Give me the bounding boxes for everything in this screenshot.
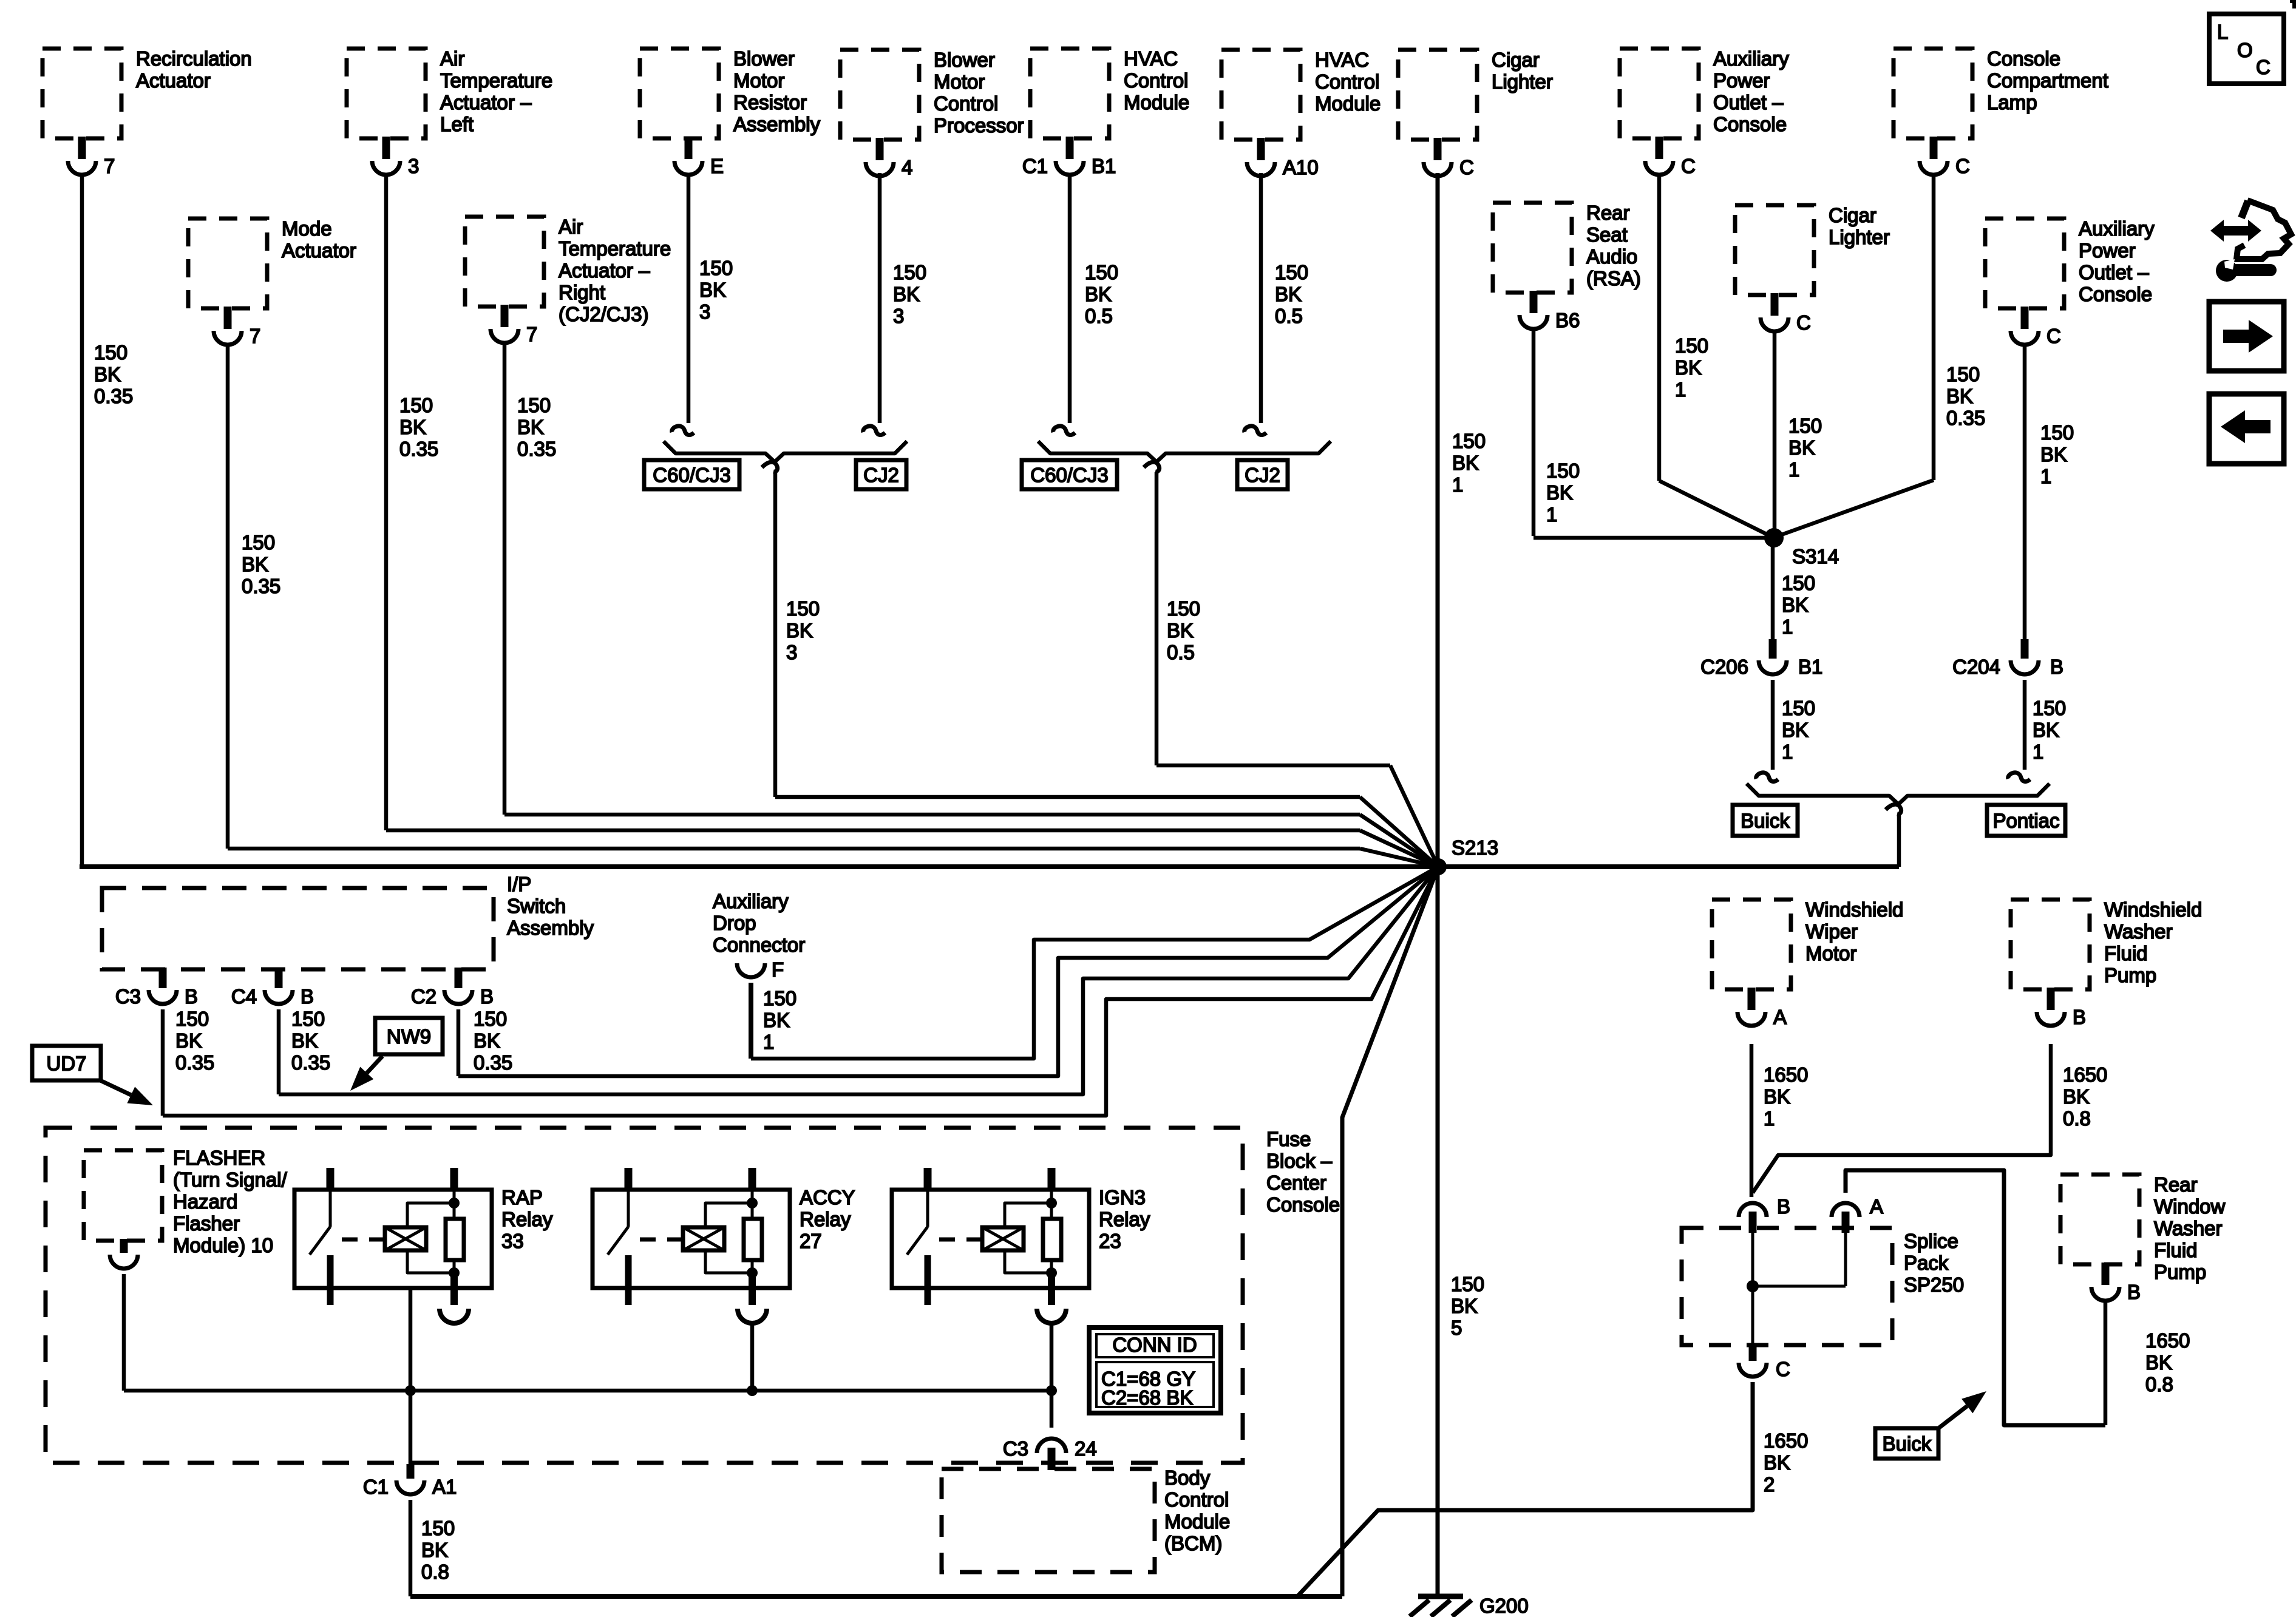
svg-text:Fluid: Fluid (2104, 942, 2148, 964)
svg-text:1: 1 (1546, 503, 1557, 526)
svg-text:Compartment: Compartment (1987, 69, 2108, 92)
svg-text:0.35: 0.35 (291, 1051, 330, 1074)
svg-text:2: 2 (1764, 1473, 1775, 1496)
svg-text:Lamp: Lamp (1987, 91, 2037, 114)
svg-text:Control: Control (934, 92, 998, 115)
hook blower control wire end (863, 426, 885, 435)
svg-text:E: E (710, 155, 724, 177)
svg-text:0.35: 0.35 (1946, 407, 1985, 429)
svg-text:S213: S213 (1452, 836, 1498, 859)
svg-text:150: 150 (242, 531, 275, 554)
wire C1 A1 to bottom net (409, 1500, 413, 1596)
wire label 150 BK 0.35 (C3) (175, 1008, 214, 1074)
svg-text:Air: Air (559, 215, 583, 238)
svg-text:Auxiliary: Auxiliary (2079, 217, 2155, 240)
wire label 150 BK 3 (blower resistor) (699, 257, 733, 323)
svg-text:BK: BK (699, 279, 726, 301)
svg-text:Pump: Pump (2104, 964, 2156, 986)
HVAC control module A10 (1221, 49, 1381, 178)
svg-text:ACCY: ACCY (800, 1186, 855, 1209)
wire ACCY relay cup to collector (750, 1323, 755, 1391)
svg-text:1: 1 (1764, 1107, 1775, 1130)
svg-text:Blower: Blower (733, 47, 795, 70)
blower motor resistor assembly (640, 47, 821, 177)
svg-text:B: B (2127, 1281, 2141, 1303)
svg-text:33: 33 (501, 1230, 524, 1252)
wire aux drop connector down (749, 983, 753, 1059)
rear window washer fluid pump (2060, 1173, 2226, 1303)
variant label Buick (splice) (1875, 1428, 1938, 1459)
svg-text:150: 150 (94, 341, 127, 364)
wire label 1650 BK 0.8 (washer pump) (2063, 1063, 2107, 1130)
svg-text:Buick: Buick (1741, 810, 1790, 832)
wire label 150 BK 1 (S314 to C206) (1782, 572, 1815, 638)
svg-text:Actuator: Actuator (282, 239, 356, 262)
svg-text:BK: BK (1546, 481, 1573, 504)
wire label 1650 BK 2 (splice pack C) (1764, 1429, 1808, 1496)
svg-text:BK: BK (517, 416, 544, 438)
icon arrow right box (2209, 302, 2284, 371)
svg-text:B: B (480, 985, 494, 1008)
wire cigar lighter console to S314 (1773, 332, 1777, 537)
wire aux power outlet to S314 (1659, 173, 1774, 538)
svg-text:Temperature: Temperature (559, 237, 671, 260)
wire label 150 BK 1 (cigar lighter) (1452, 430, 1486, 496)
svg-text:BK: BK (1764, 1085, 1790, 1108)
connector C204 B (1952, 639, 2063, 678)
svg-text:S314: S314 (1792, 545, 1839, 568)
svg-text:Fuse: Fuse (1266, 1128, 1311, 1150)
icon LOC box (2209, 14, 2284, 84)
wire label 150 BK 1 (aux power outlet) (1675, 334, 1708, 401)
CONN ID table (1089, 1327, 1221, 1413)
svg-text:Windshield: Windshield (1805, 898, 1903, 921)
ground symbol G200 (1410, 1595, 1529, 1617)
svg-text:Cigar: Cigar (1829, 204, 1877, 226)
svg-text:I/P: I/P (507, 873, 531, 895)
svg-text:Relay: Relay (800, 1208, 851, 1230)
wire S213 to C4 (279, 867, 1438, 1094)
relay ground collector wire (124, 1389, 1052, 1393)
wire label 150 BK 3 (blower control) (893, 261, 926, 327)
body control module box (942, 1469, 1155, 1572)
svg-text:BK: BK (786, 619, 813, 642)
svg-text:C2=68 BK: C2=68 BK (1101, 1386, 1193, 1409)
svg-text:Motor: Motor (1805, 942, 1856, 964)
wire RAP relay to collector (409, 1288, 413, 1391)
splice pack box (1682, 1228, 1892, 1345)
svg-text:BK: BK (291, 1029, 318, 1052)
svg-text:Outlet –: Outlet – (2079, 261, 2149, 283)
svg-text:C1: C1 (363, 1476, 389, 1498)
cigar lighter (console) (1735, 204, 1890, 334)
svg-text:C3: C3 (115, 985, 141, 1008)
svg-text:Mode: Mode (282, 217, 332, 240)
label auxiliary drop connector (713, 890, 805, 956)
wire below C204 (2023, 680, 2027, 770)
svg-text:B1: B1 (1092, 155, 1116, 177)
svg-text:1: 1 (2033, 741, 2043, 763)
inline connector label CJ2 (856, 460, 906, 489)
wire label 150 BK 0.35 (console lamp) (1946, 363, 1985, 429)
svg-text:BK: BK (94, 363, 121, 385)
svg-text:Power: Power (1713, 69, 1770, 92)
svg-text:Block –: Block – (1266, 1150, 1333, 1172)
variant label Pontiac (1987, 805, 2065, 836)
svg-text:Flasher: Flasher (173, 1212, 240, 1235)
svg-text:A1: A1 (432, 1476, 457, 1498)
flasher box (84, 1150, 162, 1241)
svg-text:Right: Right (559, 281, 605, 303)
svg-text:3: 3 (408, 155, 419, 177)
wire hvac C1 down (1068, 173, 1072, 423)
wire blower resistor down (687, 173, 691, 423)
svg-text:7: 7 (250, 325, 260, 347)
svg-text:150: 150 (1946, 363, 1980, 385)
wire IGN3 relay cup to C3 24 (1050, 1323, 1054, 1428)
svg-text:C60/CJ3: C60/CJ3 (1030, 464, 1108, 486)
svg-text:A: A (1773, 1006, 1787, 1028)
svg-text:B: B (185, 985, 198, 1008)
inline connector label C60/CJ3 (644, 460, 739, 489)
wire label 150 BK 3 (merged blower) (786, 597, 820, 663)
svg-text:Relay: Relay (1099, 1208, 1150, 1230)
svg-text:0.35: 0.35 (399, 438, 438, 460)
svg-text:BK: BK (1782, 594, 1809, 616)
air temperature actuator - right (465, 215, 671, 345)
corner mark top right (2290, 0, 2296, 8)
icon arrow left box (2209, 394, 2284, 464)
svg-text:Auxiliary: Auxiliary (713, 890, 789, 912)
connector C1 A1 (363, 1464, 457, 1498)
callout box NW9 (375, 1018, 443, 1054)
blower motor control processor (840, 49, 1024, 178)
wire air temp left to S213 (386, 173, 1438, 867)
svg-text:Console: Console (1266, 1193, 1340, 1216)
svg-text:BK: BK (1946, 385, 1973, 407)
svg-text:0.35: 0.35 (517, 438, 556, 460)
svg-text:B: B (301, 985, 314, 1008)
svg-text:G200: G200 (1479, 1595, 1529, 1617)
svg-text:Body: Body (1164, 1466, 1211, 1489)
windshield washer fluid pump (2011, 898, 2202, 1028)
svg-text:CJ2: CJ2 (863, 464, 899, 486)
svg-text:1650: 1650 (2063, 1063, 2107, 1086)
svg-text:150: 150 (1675, 334, 1708, 357)
svg-text:Windshield: Windshield (2104, 898, 2202, 921)
wire S213 to C2 (458, 867, 1438, 1076)
svg-text:BK: BK (2040, 443, 2067, 466)
wire rear seat audio to S314 (1533, 328, 1774, 538)
svg-text:B: B (2073, 1006, 2086, 1028)
connector C3 24 (1003, 1437, 1097, 1470)
svg-text:B: B (2050, 656, 2063, 678)
svg-text:BK: BK (2033, 719, 2059, 741)
svg-text:BK: BK (474, 1029, 500, 1052)
svg-text:150: 150 (1451, 1273, 1484, 1295)
svg-text:B6: B6 (1555, 309, 1580, 331)
ACCY relay 27 (593, 1168, 855, 1323)
svg-text:BK: BK (1452, 452, 1479, 474)
icon hand with wrench (2210, 200, 2291, 282)
svg-text:BK: BK (1275, 283, 1302, 305)
svg-text:150: 150 (421, 1517, 455, 1539)
auxiliary power outlet - console 2 (1985, 217, 2155, 347)
svg-text:150: 150 (893, 261, 926, 283)
mode actuator (188, 217, 356, 347)
svg-text:C1: C1 (1022, 155, 1048, 177)
svg-text:B: B (1777, 1195, 1790, 1218)
wire merged blower to S213 (775, 472, 1438, 867)
svg-text:Outlet –: Outlet – (1713, 91, 1784, 114)
svg-text:NW9: NW9 (387, 1025, 431, 1048)
svg-text:0.5: 0.5 (1085, 305, 1113, 327)
junction collector buick/pontiac (1747, 784, 2050, 804)
svg-text:Assembly: Assembly (507, 917, 594, 939)
svg-text:Relay: Relay (501, 1208, 553, 1230)
wire C4 down (277, 1009, 281, 1094)
svg-text:1: 1 (1788, 458, 1799, 481)
label splice pack SP250 (1904, 1230, 1964, 1296)
svg-text:C: C (1955, 155, 1970, 177)
node collector RAP (405, 1385, 416, 1396)
callout box UD7 (32, 1046, 101, 1080)
wire buick/pontiac junction to main line (1897, 815, 1901, 867)
svg-text:BK: BK (1085, 283, 1112, 305)
wire S314 to C206 (1771, 541, 1775, 641)
svg-text:BK: BK (1167, 619, 1194, 642)
svg-text:Audio: Audio (1586, 245, 1637, 268)
svg-text:0.35: 0.35 (94, 385, 133, 407)
hook hvac A10 wire end (1245, 426, 1266, 435)
hook below C206 (1756, 773, 1778, 782)
svg-text:Resistor: Resistor (733, 91, 807, 114)
svg-text:A: A (1870, 1195, 1883, 1218)
junction collector blower group (664, 441, 907, 462)
svg-text:Module: Module (1124, 91, 1189, 114)
svg-text:Lighter: Lighter (1492, 70, 1553, 93)
variant label Buick (1733, 805, 1798, 836)
svg-text:Module: Module (1315, 92, 1381, 115)
svg-text:Motor: Motor (934, 70, 985, 93)
svg-text:Pontiac: Pontiac (1992, 810, 2059, 832)
svg-text:(BCM): (BCM) (1164, 1532, 1222, 1554)
air temperature actuator - left (347, 47, 552, 177)
svg-text:150: 150 (786, 597, 820, 620)
svg-text:Left: Left (440, 113, 474, 135)
svg-text:CJ2: CJ2 (1245, 464, 1280, 486)
svg-text:150: 150 (291, 1008, 325, 1030)
svg-text:150: 150 (1782, 697, 1815, 719)
wire C2 down (457, 1009, 461, 1076)
svg-text:Air: Air (440, 47, 464, 70)
svg-text:0.8: 0.8 (2063, 1107, 2091, 1130)
crowfoot buick/pontiac (1886, 804, 1901, 814)
svg-text:Lighter: Lighter (1829, 226, 1890, 248)
crowfoot blower group (762, 462, 778, 472)
svg-text:Seat: Seat (1586, 223, 1628, 246)
wire air temp right to S213 (504, 341, 1438, 867)
svg-text:BK: BK (1782, 719, 1809, 741)
svg-text:C: C (2256, 56, 2271, 78)
auxiliary power outlet - console (1620, 47, 1789, 177)
svg-text:0.5: 0.5 (1275, 305, 1303, 327)
svg-text:BK: BK (2145, 1351, 2172, 1374)
svg-text:Hazard: Hazard (173, 1190, 237, 1213)
svg-text:Control: Control (1164, 1488, 1229, 1511)
svg-text:Washer: Washer (2104, 920, 2172, 943)
hook below C204 (2008, 773, 2030, 782)
svg-text:Cigar: Cigar (1492, 49, 1540, 71)
wire console lamp to S314 (1776, 173, 1934, 537)
svg-text:Actuator: Actuator (136, 69, 211, 92)
svg-text:Motor: Motor (733, 69, 784, 92)
svg-text:150: 150 (175, 1008, 209, 1030)
svg-text:Center: Center (1266, 1171, 1326, 1194)
svg-text:F: F (772, 958, 784, 981)
svg-text:Washer: Washer (2154, 1217, 2222, 1239)
wire splice pack C to bottom net (1297, 1382, 1753, 1596)
svg-text:BK: BK (763, 1009, 790, 1031)
svg-text:5: 5 (1451, 1317, 1462, 1339)
svg-text:BK: BK (399, 416, 426, 438)
wire splice pack A to rear washer net (1846, 1170, 2105, 1425)
rear seat audio (RSA) (1493, 202, 1641, 331)
wire label 150 BK 0.8 (C1 A1) (421, 1517, 455, 1583)
wire mode actuator to S213 (228, 343, 1438, 867)
svg-text:Power: Power (2079, 239, 2136, 262)
svg-text:7: 7 (526, 323, 537, 345)
wire cigar lighter through S213 to G200 (1436, 173, 1440, 1596)
svg-text:SP250: SP250 (1904, 1273, 1964, 1296)
svg-text:Assembly: Assembly (733, 113, 821, 135)
wire label 150 BK 0.35 (C2) (474, 1008, 512, 1074)
wire label 150 BK 0.35 (C4) (291, 1008, 330, 1074)
svg-text:3: 3 (699, 300, 710, 323)
recirculation actuator (42, 47, 252, 177)
svg-text:O: O (2237, 39, 2253, 61)
connector C3 B (115, 968, 198, 1008)
svg-text:Actuator –: Actuator – (559, 259, 650, 282)
svg-text:Wiper: Wiper (1805, 920, 1858, 943)
svg-text:HVAC: HVAC (1315, 49, 1369, 71)
wire label 150 BK 0.5 (hvac C1) (1085, 261, 1118, 327)
wire S213 to aux drop connector (751, 867, 1438, 1059)
svg-text:150: 150 (2033, 697, 2066, 719)
svg-text:Pump: Pump (2154, 1261, 2206, 1283)
svg-text:C204: C204 (1952, 656, 2000, 678)
wire below C206 (1771, 680, 1775, 770)
svg-text:150: 150 (399, 394, 433, 416)
node collector ACCY (747, 1385, 758, 1396)
svg-text:Drop: Drop (713, 912, 756, 934)
svg-text:IGN3: IGN3 (1099, 1186, 1146, 1209)
wire aux power outlet 2 down (2023, 345, 2027, 641)
svg-text:HVAC: HVAC (1124, 47, 1178, 70)
svg-text:0.8: 0.8 (421, 1561, 449, 1583)
svg-text:150: 150 (1788, 415, 1822, 437)
svg-text:Auxiliary: Auxiliary (1713, 47, 1789, 70)
svg-text:Pack: Pack (1904, 1252, 1949, 1274)
svg-text:Console: Console (2079, 283, 2152, 305)
svg-text:150: 150 (1275, 261, 1308, 283)
svg-text:1: 1 (763, 1031, 774, 1053)
svg-text:C3: C3 (1003, 1437, 1028, 1460)
svg-text:Rear: Rear (2154, 1173, 2198, 1196)
wire label 150 BK 0.35 (air temp right) (517, 394, 556, 460)
svg-text:1650: 1650 (1764, 1429, 1808, 1452)
windshield wiper motor (1712, 898, 1903, 1028)
svg-text:C4: C4 (231, 985, 257, 1008)
svg-text:BK: BK (893, 283, 920, 305)
node S213 (1430, 836, 1498, 875)
arrow from UD7 (99, 1080, 153, 1105)
svg-text:BK: BK (175, 1029, 202, 1052)
svg-text:150: 150 (1085, 261, 1118, 283)
svg-text:Buick: Buick (1883, 1432, 1932, 1455)
svg-text:0.35: 0.35 (242, 575, 280, 597)
svg-text:Connector: Connector (713, 934, 805, 956)
svg-text:Recirculation: Recirculation (136, 47, 252, 70)
junction collector hvac group (1038, 441, 1331, 462)
arrow from Buick label (1938, 1391, 1986, 1428)
svg-text:1650: 1650 (2145, 1329, 2190, 1352)
svg-text:Temperature: Temperature (440, 69, 552, 92)
wire label 150 BK 0.5 (merged hvac) (1167, 597, 1200, 663)
RAP relay 33 (294, 1168, 553, 1323)
svg-text:150: 150 (1452, 430, 1486, 452)
wire label 150 BK 1 (aux power outlet 2) (2040, 421, 2074, 487)
wire blower control down (878, 173, 882, 423)
label I/P switch assembly (507, 873, 594, 939)
connector flasher pin 10 (110, 1239, 138, 1269)
svg-text:L: L (2217, 21, 2228, 43)
svg-text:BK: BK (242, 553, 268, 575)
splice pack internal wires (1747, 1233, 1846, 1345)
svg-text:(CJ2/CJ3): (CJ2/CJ3) (559, 303, 649, 325)
svg-text:BK: BK (1451, 1295, 1478, 1317)
svg-text:150: 150 (1167, 597, 1200, 620)
svg-text:1650: 1650 (1764, 1063, 1808, 1086)
svg-text:C: C (1681, 155, 1696, 177)
svg-text:BK: BK (1675, 356, 1702, 379)
I/P switch assembly box (102, 888, 494, 969)
svg-text:Blower: Blower (934, 49, 995, 71)
wire label 150 BK 0.35 (air temp left) (399, 394, 438, 460)
svg-text:150: 150 (699, 257, 733, 279)
svg-text:1: 1 (2040, 465, 2051, 487)
wire S213 to C3 (163, 867, 1438, 1116)
wire label 150 BK 1 (below C204) (2033, 697, 2066, 763)
svg-text:0.8: 0.8 (2145, 1373, 2173, 1395)
svg-text:C2: C2 (411, 985, 436, 1008)
wire S213 to fuse block output net (1342, 867, 1438, 1596)
wire rear window washer pump down (2104, 1303, 2108, 1425)
crowfoot hvac group (1144, 462, 1160, 472)
wire hvac A10 down (1259, 173, 1263, 423)
svg-text:Console: Console (1713, 113, 1787, 135)
node S314 (1764, 528, 1839, 568)
svg-text:Module: Module (1164, 1510, 1230, 1533)
wire label 150 BK 1 (aux drop) (763, 987, 796, 1053)
svg-text:1: 1 (1782, 615, 1793, 638)
wire bottom ground net horizontal (410, 1594, 1342, 1599)
svg-text:C: C (1459, 156, 1474, 178)
svg-text:150: 150 (474, 1008, 507, 1030)
svg-text:Switch: Switch (507, 895, 566, 917)
svg-text:C206: C206 (1700, 656, 1748, 678)
wire label 150 BK 0.35 (mode actuator) (242, 531, 280, 597)
